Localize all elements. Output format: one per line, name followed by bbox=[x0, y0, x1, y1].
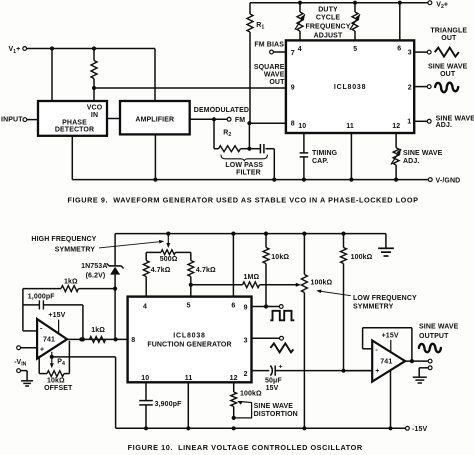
capacitor timing bbox=[303, 133, 305, 153]
resistor 4.7k right bbox=[190, 252, 192, 260]
node V1+ terminal bbox=[23, 47, 27, 51]
svg-text:TRIANGLE: TRIANGLE bbox=[430, 28, 467, 35]
svg-text:(6.2V): (6.2V) bbox=[86, 273, 106, 280]
square wave symbol bbox=[270, 311, 294, 321]
wire pin 6 to ground rail bbox=[231, 232, 235, 236]
svg-text:4.7kΩ: 4.7kΩ bbox=[151, 267, 171, 274]
svg-text:DETECTOR: DETECTOR bbox=[55, 127, 94, 134]
wire noninverting input U4 bbox=[344, 370, 373, 372]
node zener/output junction bbox=[114, 337, 118, 341]
resistor 100k to ground bbox=[341, 232, 345, 236]
svg-text:741: 741 bbox=[380, 358, 392, 365]
svg-text:OUTPUT: OUTPUT bbox=[419, 333, 449, 340]
wire inverting input branch bbox=[22, 289, 24, 331]
node junction R2 tap bbox=[212, 117, 216, 121]
svg-text:11: 11 bbox=[185, 375, 193, 382]
node square out terminal bbox=[279, 305, 283, 309]
svg-text:OUT: OUT bbox=[440, 71, 456, 78]
svg-text:FUNCTION GENERATOR: FUNCTION GENERATOR bbox=[147, 342, 231, 349]
capacitor 50uF bbox=[252, 370, 270, 372]
svg-text:50μF: 50μF bbox=[265, 377, 282, 384]
wire pin 2 out bbox=[414, 86, 427, 88]
svg-text:741: 741 bbox=[43, 336, 55, 343]
svg-text:FILTER: FILTER bbox=[236, 169, 261, 176]
capacitor low pass bbox=[249, 148, 260, 150]
svg-text:SINE WAVE: SINE WAVE bbox=[254, 403, 294, 410]
svg-text:1kΩ: 1kΩ bbox=[91, 327, 105, 334]
svg-text:FM BIAS: FM BIAS bbox=[254, 41, 284, 48]
svg-text:ADJUST: ADJUST bbox=[314, 33, 343, 40]
op-amp U4 741 (output buffer) bbox=[372, 341, 405, 382]
svg-text:4: 4 bbox=[298, 46, 302, 53]
wire square-out to VCO IN (pin 9 net) bbox=[94, 87, 286, 89]
svg-text:IN: IN bbox=[91, 112, 98, 119]
node sine adj terminal bbox=[427, 119, 431, 123]
wire -15V rail bbox=[116, 427, 406, 429]
svg-text:1kΩ: 1kΩ bbox=[64, 278, 78, 285]
wire pin 11 to -15V rail bbox=[187, 382, 189, 428]
svg-text:AMPLIFIER: AMPLIFIER bbox=[135, 117, 174, 124]
svg-text:+: + bbox=[279, 363, 283, 370]
wire V+ to phase detector bbox=[50, 46, 54, 50]
svg-text:CYCLE: CYCLE bbox=[316, 14, 341, 21]
node sine output terminal bbox=[428, 359, 432, 363]
svg-text:-: - bbox=[375, 345, 378, 354]
wire pin 3 triangle out bbox=[252, 337, 280, 339]
op-amp U3 ICL8038 function generator bbox=[128, 297, 252, 383]
node sine out terminal bbox=[427, 85, 431, 89]
svg-text:TIMING: TIMING bbox=[312, 150, 338, 157]
svg-text:6: 6 bbox=[397, 45, 401, 52]
node demodulated FM terminal bbox=[227, 117, 231, 121]
svg-text:500Ω: 500Ω bbox=[160, 256, 178, 263]
wire V2+ rail bbox=[250, 2, 428, 4]
node V2+ terminal bbox=[428, 1, 432, 5]
svg-text:3: 3 bbox=[408, 49, 412, 56]
potentiometer duty-cycle A bbox=[298, 1, 302, 5]
svg-text:12: 12 bbox=[392, 123, 400, 130]
svg-text:ICL8038: ICL8038 bbox=[334, 84, 366, 91]
wire U4 output bbox=[405, 360, 428, 362]
arrow to 500 pot bbox=[99, 241, 163, 248]
wire V-/GND rail bbox=[72, 179, 428, 181]
svg-text:10kΩ: 10kΩ bbox=[47, 378, 65, 385]
svg-text:9: 9 bbox=[244, 305, 248, 312]
svg-text:+15V: +15V bbox=[382, 333, 399, 340]
svg-text:10kΩ: 10kΩ bbox=[271, 254, 289, 261]
node V-/GND terminal bbox=[428, 178, 432, 182]
op-amp U1 ICL8038 (figure 9) bbox=[286, 40, 414, 133]
svg-text:4: 4 bbox=[143, 304, 147, 311]
svg-text:VCO: VCO bbox=[87, 104, 103, 111]
wire offset wiper to -15V rail bbox=[52, 356, 116, 358]
potentiometer 100k low freq symmetry bbox=[302, 232, 306, 236]
node triangle out terminal (fig10) bbox=[280, 336, 284, 340]
svg-text:FM: FM bbox=[235, 117, 245, 124]
svg-text:2: 2 bbox=[408, 84, 412, 91]
zener D1 1N753A bbox=[114, 234, 116, 266]
node sine buffer junction bbox=[341, 369, 345, 373]
resistor VCO bias bbox=[93, 49, 95, 61]
svg-text:V-/GND: V-/GND bbox=[436, 177, 461, 184]
svg-text:ADJ.: ADJ. bbox=[436, 122, 452, 129]
wire amplifier output bbox=[190, 118, 228, 120]
wire filter node to pin 8 bbox=[248, 123, 250, 149]
svg-text:OFFSET: OFFSET bbox=[44, 385, 73, 392]
box phase detector bbox=[38, 101, 107, 136]
wire pin 3 out bbox=[414, 51, 427, 53]
svg-text:5: 5 bbox=[353, 46, 357, 53]
svg-text:CAP.: CAP. bbox=[312, 158, 328, 165]
node VCO IN junction bbox=[92, 86, 96, 90]
wire U2 output to pin 8 bbox=[67, 338, 128, 340]
svg-text:+: + bbox=[40, 347, 44, 354]
svg-text:OUT: OUT bbox=[441, 35, 457, 42]
svg-text:INPUT: INPUT bbox=[1, 117, 23, 124]
wire cap to output bbox=[82, 305, 84, 340]
node -VIN terminal bbox=[17, 346, 21, 350]
svg-text:1,000pF: 1,000pF bbox=[28, 294, 56, 301]
svg-text:SINE WAVE: SINE WAVE bbox=[419, 324, 459, 331]
resistor 4.7k left bbox=[145, 252, 147, 260]
svg-text:ADJ.: ADJ. bbox=[403, 158, 419, 165]
wire U4 to -15V bbox=[390, 371, 392, 429]
node input ground terminal bbox=[17, 369, 21, 373]
svg-text:15V: 15V bbox=[266, 385, 279, 392]
svg-text:DISTORTION: DISTORTION bbox=[254, 411, 298, 418]
node pin 9 junction bbox=[264, 304, 268, 308]
node junction R2/C bbox=[247, 147, 251, 151]
wire pin 1 out bbox=[414, 120, 427, 122]
triangle wave symbol bbox=[435, 48, 459, 57]
capacitor 3900pF bbox=[145, 382, 147, 400]
svg-text:10: 10 bbox=[141, 375, 149, 382]
svg-text:100kΩ: 100kΩ bbox=[351, 254, 373, 261]
potentiometer 500 high freq symmetry bbox=[146, 251, 161, 253]
svg-text:SQUARE: SQUARE bbox=[254, 64, 285, 71]
svg-text:DUTY: DUTY bbox=[318, 6, 338, 13]
svg-text:8: 8 bbox=[131, 337, 135, 344]
svg-text:WAVE: WAVE bbox=[264, 72, 285, 79]
wire V+ to amplifier bbox=[154, 49, 156, 102]
svg-text:100kΩ: 100kΩ bbox=[240, 390, 262, 397]
ground symbol top right bbox=[385, 234, 387, 249]
potentiometer duty-cycle B bbox=[353, 1, 357, 5]
svg-text:12: 12 bbox=[230, 375, 238, 382]
wire FM bias to pin 7 bbox=[273, 51, 286, 53]
svg-text:1: 1 bbox=[407, 118, 411, 125]
svg-text:3: 3 bbox=[244, 338, 248, 345]
op-amp U2 741 (input buffer) bbox=[37, 319, 67, 359]
potentiometer 100k sine wave distortion bbox=[233, 382, 235, 392]
svg-text:LOW PASS: LOW PASS bbox=[225, 162, 263, 169]
svg-text:-15V: -15V bbox=[412, 426, 427, 433]
svg-text:SINE WAVE: SINE WAVE bbox=[403, 150, 443, 157]
node FM BIAS terminal bbox=[270, 50, 274, 54]
wire feedback U4 bbox=[363, 348, 373, 350]
wire amplifier to rail bbox=[154, 134, 156, 179]
svg-text:HIGH FREQUENCY: HIGH FREQUENCY bbox=[31, 236, 96, 243]
wire pin 9 square out bbox=[252, 306, 280, 308]
arrow to 100k pot bbox=[319, 291, 351, 296]
svg-text:LOW FREQUENCY: LOW FREQUENCY bbox=[353, 295, 417, 302]
node pin5 junction bbox=[189, 283, 193, 287]
svg-text:8: 8 bbox=[291, 121, 295, 128]
node -15V terminal bbox=[406, 426, 410, 430]
node cap feedback junction bbox=[79, 337, 83, 341]
svg-text:3,900pF: 3,900pF bbox=[155, 401, 183, 408]
svg-text:5: 5 bbox=[187, 303, 191, 310]
svg-text:100kΩ: 100kΩ bbox=[311, 279, 333, 286]
wire input bbox=[27, 119, 38, 121]
node zener junction bbox=[113, 287, 117, 291]
node triangle out terminal bbox=[427, 50, 431, 54]
svg-text:2: 2 bbox=[244, 371, 248, 378]
wire V1+ rail bbox=[27, 48, 155, 50]
svg-text:FIGURE 10. LINEAR VOLTAGE CON: FIGURE 10. LINEAR VOLTAGE CONTROLLED OSC… bbox=[128, 443, 363, 452]
wire down to R2 bbox=[213, 119, 215, 148]
node sine output ground terminal bbox=[428, 366, 432, 370]
wire pin 11 to rail bbox=[350, 133, 352, 180]
resistor 10k pullup bbox=[264, 232, 268, 236]
svg-text:7: 7 bbox=[291, 50, 295, 57]
potentiometer sine wave adj bbox=[395, 133, 397, 148]
wire phase det to rail bbox=[71, 136, 73, 180]
svg-text:10: 10 bbox=[298, 123, 306, 130]
wire pin 6 to V2+ bbox=[398, 1, 402, 5]
svg-text:+15V: +15V bbox=[48, 312, 65, 319]
wire VCO IN bbox=[93, 88, 95, 101]
triangle wave symbol (fig10) bbox=[270, 343, 293, 352]
svg-text:9: 9 bbox=[291, 84, 295, 91]
svg-text:OUT: OUT bbox=[269, 79, 285, 86]
svg-text:SYMMETRY: SYMMETRY bbox=[353, 303, 394, 310]
svg-text:4.7kΩ: 4.7kΩ bbox=[196, 267, 216, 274]
svg-text:SYMMETRY: SYMMETRY bbox=[55, 246, 96, 253]
sine wave symbol bbox=[435, 83, 458, 92]
potentiometer P4 offset bbox=[50, 355, 54, 359]
wire phase det to amplifier bbox=[107, 118, 120, 120]
svg-text:FIGURE 9. WAVEFORM GENERATOR: FIGURE 9. WAVEFORM GENERATOR USED AS STA… bbox=[67, 195, 418, 204]
svg-text:FREQUENCY: FREQUENCY bbox=[305, 24, 350, 31]
box amplifier bbox=[120, 101, 190, 134]
sine wave symbol (fig10) bbox=[419, 344, 441, 352]
brace low pass filter bbox=[221, 155, 267, 161]
svg-text:11: 11 bbox=[346, 123, 354, 130]
svg-text:DEMODULATED: DEMODULATED bbox=[194, 107, 249, 114]
svg-text:SINE WAVE: SINE WAVE bbox=[428, 64, 468, 71]
wire ground rail (fig 10) bbox=[115, 233, 386, 235]
svg-text:6: 6 bbox=[231, 303, 235, 310]
wire cap to V- rail bbox=[273, 149, 275, 180]
resistor R1 bbox=[249, 3, 251, 14]
svg-text:+: + bbox=[375, 368, 379, 375]
svg-text:-: - bbox=[40, 323, 43, 332]
node junction V1+/R bbox=[92, 46, 96, 50]
svg-text:ICL8038: ICL8038 bbox=[173, 332, 205, 339]
svg-text:1MΩ: 1MΩ bbox=[244, 274, 260, 281]
svg-text:1N753A: 1N753A bbox=[81, 263, 107, 270]
